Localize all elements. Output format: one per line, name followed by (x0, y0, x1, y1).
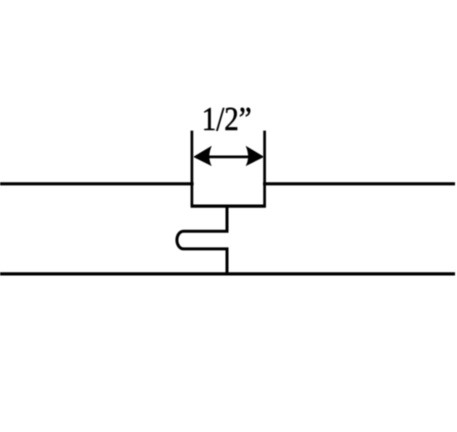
wire notch bottom (191, 205, 266, 208)
wire top panel surface left segment (0, 182, 194, 185)
wire right extension line and notch right wall (263, 131, 266, 207)
node dimension label 1/2" (202, 100, 252, 137)
wire top panel surface right segment (263, 182, 455, 185)
wire dimension arrow shaft (205, 155, 252, 158)
wire bottom panel surface (0, 272, 455, 275)
svg-text:1/2”: 1/2” (202, 100, 252, 137)
node right arrowhead (246, 146, 265, 166)
wire left extension line and notch left wall (191, 131, 194, 207)
node left arrowhead (193, 146, 212, 166)
wire joint profile: center stem, hook with rounded cap, lower stem (177, 205, 227, 275)
